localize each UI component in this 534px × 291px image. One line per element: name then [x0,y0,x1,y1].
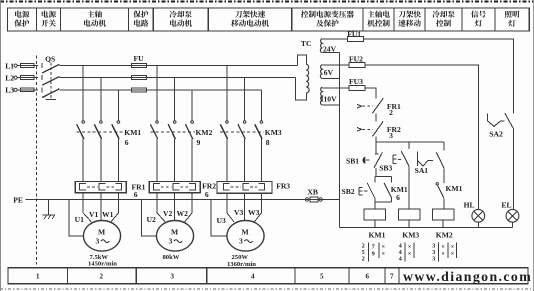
svg-text:L1: L1 [5,61,14,70]
svg-text:U3: U3 [217,216,226,225]
thermal contact FR2 (NC) [372,121,383,136]
wire KM2 coil to common [442,220,444,228]
motor M3 leads [227,193,234,222]
wire SA2 to EL [512,128,514,210]
wire 6V return to common [322,78,339,80]
wire drop KM2-b [174,78,176,121]
node L2 terminal [14,76,17,79]
svg-text:6: 6 [125,138,129,147]
svg-text:www.diangon.com: www.diangon.com [403,269,532,284]
lamp HL [472,209,485,222]
wire EL to common [512,222,514,228]
wire FR1 to FR2 [375,113,377,121]
TC secondary 110V winding [320,87,322,105]
contactor KM3 main contact b [243,121,246,124]
motor M2 circle [156,221,193,252]
header column dividers [36,8,494,31]
wire 6V tap to FU2 [322,64,349,66]
svg-text:×: × [382,245,385,251]
wire group bottom rail [375,201,392,203]
svg-text:V1: V1 [89,210,98,219]
svg-text:FU1: FU1 [347,29,361,38]
svg-text:W3: W3 [248,208,260,217]
svg-text:2: 2 [362,244,365,250]
motor M2 leads [157,193,165,222]
wire KM3 outputs to FR3 [227,139,262,182]
wire drop KM1-a [82,66,84,121]
svg-text:×: × [382,251,385,257]
contactor KM3 main contact a [226,121,229,124]
svg-text:×: × [408,245,411,251]
svg-text:HL: HL [464,201,475,210]
svg-text:3: 3 [432,244,435,250]
selector switch SA2 [488,113,505,126]
coil KM1 [364,209,386,220]
svg-text:TC: TC [301,39,312,48]
wire KM1 coil to common [374,220,376,228]
motor M3 circle [227,221,264,252]
svg-text:4: 4 [399,256,402,262]
svg-text:×: × [451,251,454,257]
svg-text:6: 6 [366,273,370,281]
wire FU1 to EL branch [364,39,514,113]
page top dash-dot border [0,1,534,3]
contactor KM3 main contact c [260,121,263,124]
svg-text:6V: 6V [324,68,334,77]
contactor KM2 main contact c [191,121,194,124]
svg-text:7: 7 [372,245,375,251]
svg-text:1360r/min: 1360r/min [227,261,256,268]
wire SB3 to KM3 coil [408,167,410,209]
fuse FU phase 3 [131,88,146,92]
svg-text:5: 5 [362,250,365,256]
contact KM1 (NO) for pump [436,183,438,185]
svg-text:W2: W2 [177,209,189,218]
svg-text:3: 3 [389,131,393,140]
wire 110V tap to FU3 [322,87,349,89]
svg-text:3: 3 [239,237,243,246]
svg-text:L2: L2 [5,73,14,82]
switch QS handle bar [46,99,57,101]
motor M2 frame earth bond [142,200,157,236]
svg-text:1450r/min: 1450r/min [88,261,117,268]
wire secondary common down [339,53,341,228]
wire drop KM1-c [117,90,119,121]
wire to KM1 coil [374,202,376,209]
overload relay FR3 heater box [217,182,272,194]
wire drop KM3-b [244,78,246,121]
svg-text:2: 2 [100,273,104,281]
svg-text:1: 1 [36,273,40,281]
svg-text:KM1: KM1 [124,128,141,137]
switch QS blade phase 1 [42,64,59,73]
svg-text:2: 2 [389,108,393,117]
svg-text:6: 6 [396,193,400,202]
svg-text:3: 3 [169,237,173,246]
svg-text:EL: EL [501,201,511,210]
node L3 terminal [14,88,17,91]
selector switch SA1 [443,142,445,151]
wire FR2 to node / control rail [375,136,377,154]
svg-text:SB2: SB2 [342,187,355,196]
svg-text:80kW: 80kW [163,254,180,261]
contact cross-reference table KM2 [432,244,454,263]
switch QS fixed contact ticks [41,63,43,92]
svg-text:W1: W1 [102,210,114,219]
svg-text:SA2: SA2 [489,130,503,139]
wire HL to common [477,222,479,228]
coil KM3 [398,209,420,220]
svg-text:KM3: KM3 [265,128,282,137]
fuse FU2 [349,63,365,68]
fuse on L1 input [21,64,34,68]
svg-text:U1: U1 [75,215,84,224]
node L1 terminal [14,64,17,67]
svg-text:FU: FU [134,54,145,63]
fuse on L2 input [21,76,34,80]
wire drop KM3-a [226,66,228,121]
contactor KM1 main contact b [100,121,103,124]
wire drop KM2-a [156,66,158,121]
bottom zone table [8,268,528,284]
wire group top rail [375,175,392,177]
wire bus L1 [59,65,297,67]
fuse FU phase 1 [131,64,146,68]
lamp EL [506,209,519,222]
contactor KM1 main contact a [82,121,85,124]
transformer TC [296,39,340,228]
wire KM1 outputs to FR1 [83,139,118,182]
svg-text:KM3: KM3 [402,230,419,239]
switch QS blade phase 3 [42,89,59,98]
contactor KM2 main contact a [156,121,159,124]
svg-text:7: 7 [390,273,394,281]
ground symbol on PE [47,200,49,215]
wire PE bus [26,199,340,201]
TC secondary 24V winding [320,39,322,53]
svg-text:KM1: KM1 [369,230,386,239]
svg-text:L3: L3 [5,86,14,95]
svg-text:8: 8 [266,138,270,147]
contact cross-reference table KM1 [362,244,385,263]
wire 110V return to common [322,104,339,106]
svg-text:×: × [441,245,444,251]
svg-text:3: 3 [96,237,100,246]
coil KM2 [432,209,454,220]
svg-text:6: 6 [134,190,138,199]
motor M1 frame earth bond [69,200,83,236]
svg-text:3: 3 [432,256,435,262]
contactor KM3 linkage dashed [220,131,264,133]
wire to KM2 coil [443,198,445,209]
page bottom dash-dot border [0,288,534,290]
wire FU2 to HL branch [365,65,478,209]
motor M1 circle [83,221,120,252]
pushbutton SB1 (NC stop) [363,157,366,164]
wire drop KM1-b [100,78,102,121]
TC primary winding and feeds [298,55,307,66]
svg-text:SA1: SA1 [415,166,429,175]
svg-text:FU2: FU2 [349,54,363,63]
svg-text:SB3: SB3 [379,164,392,173]
svg-text:5: 5 [320,273,324,281]
svg-text:×: × [441,251,444,257]
wire bus L3 [59,89,261,91]
connector XB on PE [305,198,308,201]
fuse FU3 [349,86,365,91]
svg-text:U2: U2 [147,215,156,224]
motor M1 leads [83,193,91,222]
svg-text:2: 2 [362,256,365,262]
wire 24V return to common [322,52,339,54]
wire FU3 to control drop [365,88,376,98]
svg-text:SB1: SB1 [346,156,359,165]
wire control common rail [340,227,513,229]
column divider dashed line [36,56,38,265]
svg-text:XB: XB [307,187,318,196]
svg-text:9: 9 [372,251,375,257]
svg-text:3: 3 [432,250,435,256]
wire bus L2 [59,77,295,79]
svg-text:4: 4 [399,250,402,256]
svg-text:KM2: KM2 [196,128,213,137]
contactor KM1 linkage dashed [77,131,125,133]
svg-text:KM1: KM1 [446,184,463,193]
wire 24V tap to FU1 [322,38,347,40]
contact KM1 self-hold (NO) [391,176,393,182]
thermal contact FR1 (NC) [372,98,383,113]
svg-text:QS: QS [45,55,55,64]
fuse FU1 [348,37,364,42]
svg-text:V2: V2 [163,209,172,218]
svg-text:FR3: FR3 [276,181,290,190]
svg-text:PE: PE [13,196,23,205]
svg-text:KM2: KM2 [436,230,453,239]
wire drop KM3-c [260,90,262,121]
overload relay FR1 heater box [75,182,126,193]
motor M3 frame earth bond [211,200,227,236]
wire SB1 to parallel group [375,168,377,177]
wire KM2 outputs to FR2 [157,139,192,182]
wire SA1 to KM1 contact [443,168,445,183]
svg-text:4: 4 [399,244,402,250]
wire drop KM2-c [191,90,193,121]
svg-text:24V: 24V [323,44,337,53]
overload relay FR2 heater box [149,182,200,193]
fuse FU phase 2 [131,76,146,80]
fuse on L3 input [21,88,34,92]
pushbutton SB2 (NO start) [374,176,376,182]
svg-text:FU3: FU3 [349,77,363,86]
header cell texts [14,10,519,26]
svg-text:6: 6 [205,190,209,199]
svg-text:110V: 110V [320,95,337,104]
contactor KM1 main contact c [117,121,120,124]
svg-text:×: × [451,245,454,251]
svg-text:M: M [98,227,105,236]
wire KM3 coil to common [408,220,410,228]
pushbutton SB3 (NO jog) drop [408,142,410,149]
switch QS blade phase 2 [42,77,59,86]
TC secondary 6V winding [320,65,322,79]
contactor KM2 linkage dashed [150,131,195,133]
svg-text:V3: V3 [234,208,243,217]
contact cross-reference table KM3 [399,244,412,263]
page left edge line [0,0,2,291]
header table frame [7,8,529,31]
svg-text:4: 4 [251,273,255,281]
contactor KM2 main contact b [173,121,176,124]
svg-text:9: 9 [197,138,201,147]
svg-text:3: 3 [171,273,175,281]
svg-text:M: M [242,227,249,236]
svg-text:×: × [408,251,411,257]
switch QS linkage dashed [50,63,52,100]
svg-text:M: M [171,227,178,236]
svg-text:250W: 250W [232,254,249,261]
wire control rail right [376,141,444,143]
svg-text:FR2: FR2 [202,181,216,190]
page right edge line [532,0,534,291]
